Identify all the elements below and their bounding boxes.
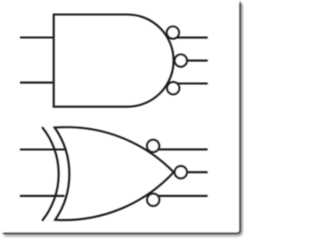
- frame shadow: outer soft glow: [4, 4, 242, 235]
- wire: XNOR U2 output 2: [182, 171, 208, 173]
- inversion bubble U1-1: [167, 26, 179, 38]
- wire: NAND U1 output 2: [178, 60, 208, 62]
- inversion bubble U2-2: [175, 166, 187, 178]
- frame shadow: top fade-in patch: [238, 0, 243, 3]
- frame shadow: right + bottom border with rounded corner: [2, 1, 240, 233]
- inversion bubble U2-3: [147, 194, 159, 206]
- XNOR gate U2 body (XOR shape): [55, 127, 174, 220]
- wire: XNOR U2 output 1: [156, 148, 208, 150]
- XNOR gate U2 outer input arc: [42, 127, 59, 221]
- wire: NAND U1 input B: [20, 82, 54, 84]
- wire: NAND U1 input A: [20, 36, 54, 38]
- wire: XNOR U2 input A: [20, 148, 66, 150]
- frame shadow: left fade-in patch: [0, 231, 4, 237]
- inversion bubble U1-3: [167, 82, 179, 94]
- wire: XNOR U2 input B: [20, 195, 65, 197]
- inversion bubble U1-2: [175, 55, 187, 67]
- inversion bubble U2-1: [147, 140, 159, 152]
- wire: NAND U1 output 3: [170, 82, 208, 84]
- wire: XNOR U2 output 3: [156, 195, 208, 197]
- NAND gate U1 body (AND shape): [54, 15, 174, 107]
- wire: NAND U1 output 1: [170, 37, 208, 39]
